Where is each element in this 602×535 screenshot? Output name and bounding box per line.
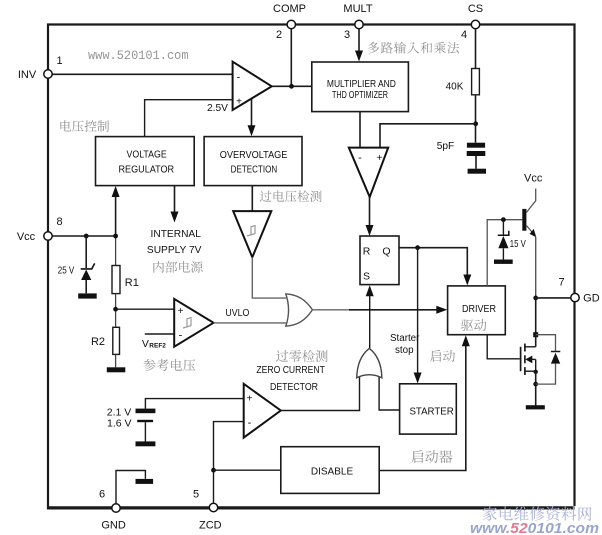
- svg-text:COMP: COMP: [273, 3, 306, 15]
- ground R2: [107, 367, 126, 372]
- node drain junction: [533, 332, 538, 337]
- svg-text:+: +: [236, 97, 242, 108]
- svg-text:R: R: [363, 246, 371, 258]
- transistor M1 mosfet: [520, 347, 522, 371]
- svg-text:7: 7: [558, 277, 564, 289]
- resistor R1: [115, 236, 117, 266]
- svg-text:ZERO CURRENT: ZERO CURRENT: [256, 365, 325, 376]
- svg-text:Vcc: Vcc: [17, 231, 36, 243]
- svg-text:www.520101.com: www.520101.com: [88, 48, 189, 63]
- svg-text:Starter: Starter: [390, 333, 420, 344]
- resistor 40K: [472, 69, 480, 95]
- svg-text:THD OPTIMIZER: THD OPTIMIZER: [332, 90, 388, 101]
- transistor Q1 npn: [522, 209, 526, 231]
- wire comparator to flip-flop R: [369, 197, 371, 231]
- svg-text:CS: CS: [468, 3, 483, 15]
- pin 5 ZCD: [209, 503, 217, 511]
- wire error amp output to multiplier: [272, 85, 312, 87]
- wire VREF2 to UVLO -: [145, 333, 174, 335]
- wire divider to UVLO +: [116, 308, 175, 310]
- watermark 家电维修资料网: [483, 506, 592, 520]
- svg-text:2.1 V: 2.1 V: [107, 406, 132, 418]
- wire OVD box to comparator: [251, 186, 253, 212]
- svg-text:OVERVOLTAGE: OVERVOLTAGE: [220, 150, 288, 161]
- label 驱动 inside driver: [461, 319, 486, 331]
- comparator current sense: [349, 148, 388, 197]
- block STARTER: [400, 384, 457, 434]
- battery 2.1V/1.6V: [145, 399, 243, 409]
- pin 3 MULT: [355, 20, 363, 28]
- node Vcc R1 junction: [113, 234, 118, 239]
- wire error amp to overvoltage detection: [251, 99, 253, 131]
- label 参考电压: [144, 359, 196, 371]
- comparator UVLO: [174, 299, 213, 347]
- svg-text:UVLO: UVLO: [225, 308, 249, 319]
- node CS junction: [473, 121, 478, 126]
- svg-text:+: +: [377, 153, 383, 164]
- wire MULT pin stem: [358, 25, 360, 56]
- wire to GD pin: [536, 297, 571, 299]
- ground 25V zener: [78, 293, 97, 298]
- wire ZCD pin to comparator -: [214, 422, 244, 504]
- svg-text:1.6 V: 1.6 V: [107, 418, 132, 430]
- svg-text:stop: stop: [395, 345, 414, 356]
- svg-text:2: 2: [276, 29, 282, 41]
- IC boundary box: [48, 25, 575, 507]
- wire junction to comparator +: [380, 124, 476, 148]
- svg-text:MULT: MULT: [343, 3, 372, 15]
- wire disable to driver: [379, 340, 466, 471]
- wire INV input: [48, 73, 233, 75]
- comparator OVD hysteresis: [233, 211, 271, 257]
- comparator zero current detector: [244, 384, 281, 438]
- svg-text:DISABLE: DISABLE: [311, 467, 354, 478]
- svg-text:INV: INV: [18, 69, 37, 81]
- block DISABLE: [281, 447, 379, 494]
- svg-text:2.5V: 2.5V: [207, 103, 228, 114]
- svg-text:4: 4: [461, 29, 467, 41]
- svg-text:MULTIPLIER AND: MULTIPLIER AND: [327, 79, 396, 90]
- svg-text:S: S: [363, 271, 370, 283]
- pin 4 CS: [471, 20, 479, 28]
- svg-text:-: -: [248, 417, 252, 429]
- wire CS pin stem: [475, 25, 477, 69]
- pin 2 COMP: [287, 20, 295, 28]
- svg-text:Vcc: Vcc: [524, 173, 543, 185]
- svg-text:R2: R2: [91, 336, 105, 348]
- svg-text:REGULATOR: REGULATOR: [119, 164, 175, 175]
- wire driver output to gate: [487, 335, 520, 359]
- gate OR restart: [357, 348, 382, 377]
- svg-text:8: 8: [56, 216, 62, 228]
- svg-text:15 V: 15 V: [510, 239, 526, 250]
- zener diode 15V: [502, 220, 504, 235]
- svg-text:DETECTOR: DETECTOR: [270, 382, 318, 393]
- label 启动: [430, 350, 455, 362]
- node body diode junction: [533, 382, 538, 387]
- ground internal bar: [136, 479, 154, 484]
- node GD junction: [533, 296, 538, 301]
- wire OR gate to driver: [312, 309, 349, 311]
- node base junction: [501, 217, 506, 222]
- wire restart gate to flip-flop S: [369, 290, 371, 348]
- svg-text:DETECTION: DETECTION: [231, 164, 278, 175]
- wire Vcc rail: [48, 235, 116, 237]
- wire GND pin network: [116, 471, 145, 505]
- label 过电压检测: [260, 190, 322, 202]
- node source dot: [534, 370, 538, 374]
- ground mosfet source: [526, 405, 545, 409]
- svg-text:R1: R1: [125, 277, 139, 289]
- wire ZCD to disable: [214, 469, 281, 471]
- wire error amp + input: [145, 100, 233, 137]
- svg-text:+: +: [178, 306, 184, 317]
- label 内部电源: [153, 261, 202, 273]
- wire ZCD output to restart gate: [281, 377, 360, 411]
- svg-text:INTERNAL: INTERNAL: [151, 229, 202, 240]
- svg-text:25 V: 25 V: [58, 265, 75, 276]
- wire GD to mosfet drain: [535, 298, 537, 347]
- pin 7 GD: [571, 293, 579, 301]
- svg-text:-: -: [358, 152, 362, 164]
- node Vcc zener junction: [84, 234, 89, 239]
- block MULTIPLIER AND THD OPTIMIZER: [312, 62, 409, 112]
- diode body: [536, 335, 556, 352]
- wire multiplier to CS comparator: [359, 112, 361, 148]
- zener diode 25V: [85, 236, 87, 268]
- svg-text:www.520101.com: www.520101.com: [470, 521, 599, 535]
- block VOLTAGE REGULATOR: [96, 137, 195, 186]
- svg-text:-: -: [237, 72, 241, 84]
- node Q junction: [415, 245, 420, 250]
- wire starter stop: [417, 248, 419, 379]
- capacitor 5pF: [467, 143, 485, 148]
- wire OVD output to OR gate: [252, 257, 286, 298]
- label 过零检测: [276, 350, 328, 362]
- op-amp error amplifier: [233, 62, 272, 110]
- node COMP junction: [289, 84, 294, 89]
- ground 15V zener: [494, 260, 513, 264]
- gate OR uvlo: [286, 294, 313, 326]
- ground 5pF: [468, 169, 486, 174]
- svg-text:GD: GD: [583, 293, 600, 305]
- svg-text:Q: Q: [382, 246, 390, 258]
- svg-text:5: 5: [193, 489, 199, 501]
- svg-text:REF2: REF2: [149, 342, 166, 349]
- pin 1 INV: [44, 70, 52, 78]
- label 启动器: [411, 450, 452, 463]
- svg-text:STARTER: STARTER: [409, 406, 453, 417]
- wire COMP pin stem: [290, 25, 292, 87]
- svg-text:V: V: [142, 338, 149, 350]
- svg-text:ZCD: ZCD: [199, 520, 222, 532]
- wire Q output to driver: [399, 248, 467, 281]
- wire starter to restart gate: [379, 377, 400, 410]
- svg-text:5pF: 5pF: [437, 141, 455, 152]
- IC bottom border: [47, 506, 575, 509]
- pin 8 Vcc: [44, 232, 52, 240]
- wire emitter to GD: [535, 237, 537, 298]
- pin 6 GND: [112, 504, 120, 512]
- label 多路输入和乘法: [368, 42, 459, 54]
- svg-text:SUPPLY 7V: SUPPLY 7V: [147, 245, 202, 256]
- svg-text:VOLTAGE: VOLTAGE: [127, 150, 167, 161]
- svg-text:6: 6: [99, 489, 105, 501]
- svg-text:3: 3: [344, 29, 350, 41]
- block DRIVER: [448, 286, 506, 335]
- svg-text:-: -: [179, 330, 183, 342]
- label 电压控制: [60, 120, 109, 132]
- svg-text:1: 1: [56, 55, 62, 67]
- wire driver top to base: [487, 220, 522, 286]
- wire UVLO output to OR gate: [214, 322, 287, 324]
- node divider junction: [113, 307, 118, 312]
- svg-text:GND: GND: [101, 520, 126, 532]
- wire 40K to junction: [475, 95, 477, 143]
- node ZCD junction: [211, 468, 216, 473]
- flip-flop RS latch: [360, 236, 399, 285]
- wire Vcc to regulator arrow: [115, 191, 117, 237]
- svg-text:DRIVER: DRIVER: [462, 304, 496, 315]
- resistor R2: [113, 327, 120, 354]
- svg-text:+: +: [247, 394, 253, 405]
- svg-text:40K: 40K: [446, 81, 464, 92]
- wire source to ground: [535, 371, 537, 405]
- wire regulator to internal supply arrow: [174, 186, 176, 217]
- block OVERVOLTAGE DETECTION: [204, 137, 302, 186]
